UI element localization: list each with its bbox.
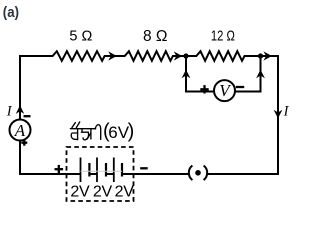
svg-text:2V: 2V xyxy=(93,183,113,200)
svg-text:6V: 6V xyxy=(108,123,129,142)
svg-text:8 Ω: 8 Ω xyxy=(143,28,168,45)
svg-text:2V: 2V xyxy=(115,183,135,200)
svg-text:(a): (a) xyxy=(3,4,19,21)
svg-text:A: A xyxy=(14,121,26,140)
svg-text:2V: 2V xyxy=(70,183,90,200)
svg-text:): ) xyxy=(128,121,135,143)
svg-text:5 Ω: 5 Ω xyxy=(69,28,92,44)
svg-text:12 Ω: 12 Ω xyxy=(211,28,235,44)
